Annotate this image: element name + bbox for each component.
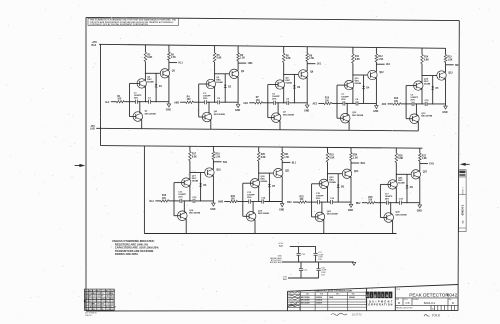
resistor R2 6.8K (144, 45, 146, 52)
svg-text:AL2: AL2 (105, 101, 110, 104)
svg-text:RES: RES (110, 296, 113, 298)
ground (305, 105, 309, 108)
wire base node (145, 72, 160, 74)
svg-text:GND: GND (166, 110, 171, 112)
resistor R18 1.5K (212, 147, 214, 152)
wire output node MF1 (446, 64, 454, 66)
ground (418, 205, 422, 208)
junction dots (258, 173, 259, 174)
svg-text:6042-0-1: 6042-0-1 (460, 204, 464, 215)
diode D5 (432, 76, 434, 104)
proprietary notice box (88, 18, 178, 25)
svg-text:1000: 1000 (97, 296, 101, 298)
svg-text:JE1: JE1 (386, 64, 391, 66)
resistor R4 100 (180, 101, 186, 103)
svg-text:+15V: +15V (92, 42, 98, 44)
ground (212, 203, 216, 206)
svg-text:6.8K: 6.8K (286, 58, 291, 60)
handwritten date (331, 313, 347, 315)
svg-text:PRINTED CIRCUIT REV: PRINTED CIRCUIT REV (396, 308, 413, 310)
fold arrow bottom left (84, 300, 87, 303)
transistor Q5 DEC6534B (206, 79, 215, 88)
svg-text:6534B: 6534B (424, 83, 431, 86)
svg-text:R18: R18 (215, 154, 220, 156)
svg-text:KL1: KL1 (179, 63, 184, 65)
capacitor C17 1000PF (385, 201, 387, 205)
resistor R16 100 (155, 200, 161, 202)
capacitor C4 (217, 100, 219, 104)
resistor R20 6.8K (258, 147, 260, 152)
wire base node (284, 73, 299, 75)
wire +15V top rail (99, 44, 446, 48)
junction dots (214, 73, 215, 74)
svg-text:DEC3009B: DEC3009B (396, 214, 407, 216)
svg-text:DEC3639B: DEC3639B (301, 302, 310, 304)
svg-text:GND: GND (235, 110, 240, 112)
svg-text:1.5K: 1.5K (309, 58, 314, 60)
resistor R27 1.8K (419, 148, 421, 153)
wire output node JK1 (307, 63, 315, 65)
svg-text:6534B: 6534B (216, 81, 223, 84)
transistor Q26 DEC6534B (388, 180, 397, 189)
svg-text:6534B: 6534B (147, 80, 154, 83)
svg-text:NUMBER: NUMBER (413, 299, 419, 301)
svg-text:R27: R27 (422, 155, 427, 157)
svg-text:PF: PF (85, 306, 87, 308)
capacitor C7 1000PF (342, 101, 344, 105)
capacitor C12 (192, 199, 194, 203)
transistor Q27 (411, 170, 420, 179)
wire signal node (263, 102, 274, 104)
fold arrow right (460, 163, 466, 166)
transistor Q2 DEC6534B (137, 79, 146, 88)
svg-text:D664: D664 (329, 296, 333, 299)
svg-text:AD2: AD2 (382, 103, 387, 106)
svg-text:DEC6534B: DEC6534B (301, 299, 310, 302)
svg-text:R20: R20 (261, 154, 266, 156)
resistor R11 6.8K (352, 47, 354, 54)
capacitor C5 1000PF (273, 101, 275, 105)
wire input junction to bases (243, 182, 250, 184)
svg-text:1.5K: 1.5K (240, 58, 245, 60)
svg-text:R15: R15 (448, 57, 453, 59)
wire base node (215, 73, 230, 75)
wire output node BL1 (282, 161, 290, 163)
svg-text:DEC3009B: DEC3009B (421, 116, 432, 118)
svg-text:BJ1: BJ1 (223, 162, 228, 164)
wire base node (259, 172, 274, 174)
transistor Q1 DEC3009B (133, 112, 143, 122)
svg-text:DEC3009B: DEC3009B (145, 113, 156, 115)
svg-text:25%: 25% (203, 98, 207, 100)
capacitor C13 1000PF (248, 199, 250, 203)
wire input junction to bases (130, 82, 137, 84)
svg-text:GND: GND (442, 112, 447, 114)
wire signal node (375, 202, 386, 204)
resistor R15 1.8K (445, 48, 447, 54)
capacitor C18 .01UF (318, 262, 320, 268)
resistor R24 1.5K (350, 148, 352, 153)
svg-text:GND: GND (417, 211, 422, 213)
capacitor C2 (148, 100, 150, 104)
svg-text:6534B: 6534B (398, 181, 405, 184)
resistor R9 1.5K (306, 47, 308, 54)
ground (375, 106, 379, 109)
transistor Q18 (205, 168, 214, 177)
parts list table (84, 289, 114, 310)
svg-text:CORPORATION: CORPORATION (366, 304, 393, 307)
resistor R23 6.8K (327, 147, 329, 152)
svg-text:BA2: BA2 (92, 44, 97, 47)
transistor Q8 DEC6534B (275, 80, 284, 89)
svg-text:34B: 34B (89, 296, 92, 298)
wire signal node (306, 201, 317, 203)
transistor Q6 (229, 69, 238, 78)
junction dots (396, 174, 397, 175)
svg-text:Q21: Q21 (285, 170, 290, 172)
svg-text:R23: R23 (330, 155, 335, 157)
svg-text:6534B: 6534B (329, 181, 336, 184)
svg-text:AM2: AM2 (174, 101, 180, 104)
transistor Q20 DEC6534B (250, 179, 259, 188)
junction dots (145, 73, 146, 74)
wire base node (328, 173, 343, 175)
svg-text:i: i (371, 293, 372, 298)
ground (236, 105, 240, 108)
svg-text:1.5K: 1.5K (378, 59, 383, 61)
wire input junction to bases (312, 183, 319, 185)
transistor Q9 (299, 70, 308, 79)
svg-text:GND: GND (348, 210, 353, 212)
svg-text:6534B: 6534B (261, 180, 268, 183)
svg-text:D664: D664 (97, 301, 101, 303)
svg-text:R24: R24 (353, 154, 358, 157)
resistor R13 100 (388, 103, 394, 105)
margin strip (459, 170, 467, 232)
ground (167, 104, 171, 107)
svg-text:B: B (398, 301, 400, 305)
wire base node (396, 173, 411, 175)
svg-text:DEC3009B: DEC3009B (258, 213, 269, 215)
wire signal node (124, 101, 135, 103)
svg-text:DEC3009B: DEC3009B (214, 114, 225, 116)
transistor Q12 (368, 70, 377, 79)
svg-text:Q18: Q18 (216, 170, 221, 172)
diode D4 (363, 75, 365, 103)
wire ground bus (282, 261, 354, 263)
transistor Q17 DEC6534B (182, 178, 191, 187)
parts list entries (85, 290, 116, 311)
svg-text:25%: 25% (134, 97, 138, 99)
resistor R7 100 (249, 102, 255, 104)
transistor Q13 DEC3009B (410, 114, 420, 124)
svg-text:2N3009: 2N3009 (316, 297, 322, 299)
transistor Q3 (160, 69, 169, 78)
transistor Q23 DEC6534B (319, 179, 328, 188)
resistor R22 100 (293, 201, 299, 203)
capacitor C9 1000PF (411, 102, 413, 106)
svg-text:6.8K: 6.8K (147, 57, 152, 59)
junction dots (283, 74, 284, 75)
svg-text:Q24: Q24 (354, 170, 359, 173)
svg-text:1.8K: 1.8K (448, 59, 453, 61)
svg-text:6534B: 6534B (192, 180, 199, 183)
transistor Q14 DEC6534B (414, 81, 423, 90)
svg-text:R12: R12 (378, 56, 383, 58)
svg-text:PROJ: PROJ (288, 303, 292, 305)
wire -15V decoupling (288, 277, 319, 279)
junction dots (421, 75, 422, 76)
svg-text:25%: 25% (272, 99, 276, 101)
svg-text:R19: R19 (231, 196, 236, 198)
svg-text:R22: R22 (300, 196, 305, 198)
svg-text:LAB: LAB (90, 128, 95, 131)
capacitor C8 (355, 101, 357, 105)
svg-text:34B: 34B (101, 304, 104, 306)
ground (349, 204, 353, 207)
svg-text:DEC3009B: DEC3009B (327, 214, 338, 216)
svg-text:1.8K: 1.8K (422, 158, 427, 160)
wire input junction to bases (199, 83, 206, 85)
number boxes (395, 298, 458, 305)
ground (280, 204, 284, 207)
wire output node KL1 (169, 62, 177, 64)
svg-text:R14: R14 (424, 56, 429, 59)
transistor Q24 (342, 169, 351, 178)
resistor R17 6.8K (189, 146, 191, 151)
svg-text:BK2: BK2 (287, 202, 292, 204)
svg-text:PEAK DETECTOR: PEAK DETECTOR (409, 293, 449, 298)
svg-text:1.5K: 1.5K (284, 157, 289, 159)
transistor Q15 (437, 71, 446, 80)
svg-text:6534B: 6534B (286, 82, 293, 85)
wire input junction to bases (406, 85, 413, 87)
resistor R8 6.8K (283, 46, 285, 53)
svg-text:Q12: Q12 (379, 72, 384, 74)
svg-text:R26: R26 (398, 155, 403, 157)
svg-text:DRN: DRN (288, 292, 291, 294)
svg-text:GND: GND (304, 111, 309, 113)
wire -15V feed to lower bus (143, 146, 145, 234)
svg-text:GND: GND (210, 209, 215, 211)
svg-text:DEC3009B: DEC3009B (352, 115, 363, 117)
resistor R6 1.5K (237, 46, 239, 53)
diode D2 (224, 74, 226, 102)
svg-text:R25: R25 (368, 197, 373, 199)
transistor Q4 DEC3009B (202, 112, 212, 122)
svg-text:l: l (390, 293, 391, 298)
resistor R12 1.5K (375, 48, 377, 54)
capacitor C1 1000PF (135, 100, 137, 104)
wire signal node (193, 101, 204, 103)
svg-text:6042: 6042 (447, 293, 458, 298)
svg-text:DEC3009B: DEC3009B (283, 114, 294, 116)
diode D8 (337, 174, 339, 202)
wire +15V lower rail (101, 146, 423, 149)
signature block (288, 294, 301, 307)
svg-text:25%: 25% (316, 198, 320, 200)
handwritten initials (424, 314, 429, 316)
svg-text:PF: PF (101, 296, 103, 298)
transistor Q10 DEC3009B (340, 113, 350, 123)
ground (444, 106, 448, 109)
diode D1 (155, 73, 157, 101)
svg-text:6.8K: 6.8K (261, 157, 266, 159)
svg-text:10-17-72: 10-17-72 (352, 314, 362, 317)
svg-text:6534B: 6534B (355, 82, 362, 85)
title block frame (288, 285, 459, 292)
wire -15V bus under bottom row (144, 233, 396, 235)
resistor R21 1.5K (281, 147, 283, 152)
wire output node BJ1 (213, 161, 221, 163)
wire input junction to bases (380, 183, 387, 185)
logo digital equipment corporation (366, 292, 393, 299)
svg-text:R11: R11 (355, 56, 360, 58)
svg-text:DEC3009B: DEC3009B (189, 213, 200, 215)
resistor R14 6.8K (421, 48, 423, 54)
svg-text:6.8K: 6.8K (355, 59, 360, 61)
transistor Q16 DEC3009B (178, 211, 188, 221)
svg-text:R10: R10 (325, 98, 330, 100)
resistor R26 6.8K (395, 148, 397, 153)
svg-text:25%: 25% (247, 197, 251, 199)
capacitor C14 (261, 199, 263, 203)
wire signal node (332, 102, 343, 104)
resistor R25 100 (362, 202, 368, 204)
svg-text:UM1: UM1 (248, 63, 254, 65)
svg-text:D664: D664 (110, 309, 114, 311)
wire signal node (401, 103, 412, 105)
capacitor C17 .01UF (315, 247, 317, 253)
svg-text:6.8K: 6.8K (192, 156, 197, 158)
svg-text:TRANSISTOR & DIODE CONVERSION: TRANSISTOR & DIODE CONVERSION CHART (314, 289, 353, 292)
wire output node UM1 (238, 62, 246, 64)
svg-text:R21: R21 (284, 154, 289, 156)
svg-text:BE2: BE2 (356, 203, 361, 205)
diode D6 (200, 173, 202, 201)
wire base node (190, 172, 205, 174)
svg-text:Q15: Q15 (448, 73, 453, 75)
svg-text:6.8K: 6.8K (424, 59, 429, 61)
svg-text:1000: 1000 (110, 304, 114, 306)
transistor Q25 DEC3009B (384, 213, 394, 223)
resistor R10 100 (318, 102, 324, 104)
capacitor C3 1000PF (204, 100, 206, 104)
svg-text:1.5K: 1.5K (171, 57, 176, 59)
diode D7 (268, 173, 270, 201)
svg-text:2N3639: 2N3639 (316, 302, 322, 304)
svg-text:10%: 10% (321, 274, 325, 276)
junction dots (327, 173, 328, 174)
svg-text:JK1: JK1 (317, 64, 322, 66)
wire input junction to bases (268, 84, 275, 86)
svg-text:6.8K: 6.8K (217, 58, 222, 60)
ground (352, 262, 356, 265)
svg-text:CHK: CHK (288, 296, 291, 298)
capacitor C6 (286, 101, 288, 105)
svg-text:25%: 25% (178, 197, 182, 199)
svg-text:AE2: AE2 (313, 103, 318, 106)
svg-text:DL2: DL2 (150, 201, 155, 203)
wire signal node (238, 201, 249, 203)
wire base node (353, 74, 368, 76)
wire output node BH1 (351, 162, 359, 164)
svg-text:R17: R17 (192, 154, 197, 156)
wire input junction to bases (337, 84, 344, 86)
capacitor C15 (300, 262, 302, 268)
svg-text:6.8K: 6.8K (398, 158, 403, 160)
svg-text:DRB 110: DRB 110 (85, 315, 92, 317)
svg-text:EH1: EH1 (429, 164, 434, 166)
junction dots (189, 172, 190, 173)
svg-text:D: D (452, 301, 454, 305)
wire -15V bus under top row (96, 128, 418, 131)
svg-text:COPYRIGHT 1973 BY DIGITAL EQUI: COPYRIGHT 1973 BY DIGITAL EQUIPMENT CORP… (90, 23, 149, 26)
capacitor C11 1000PF (179, 199, 181, 203)
svg-text:1N3606: 1N3606 (349, 297, 355, 299)
svg-text:SHEET 1: SHEET 1 (462, 187, 464, 194)
svg-text:i: i (379, 293, 380, 298)
svg-text:1.5K: 1.5K (353, 158, 358, 160)
resistor R3 1.5K (168, 45, 170, 52)
svg-text:6042-0-1: 6042-0-1 (424, 301, 436, 305)
svg-text:DIODES ARE D664: DIODES ARE D664 (115, 252, 139, 256)
transistor diode conversion chart (300, 292, 367, 310)
svg-text:1.5K: 1.5K (215, 156, 220, 158)
capacitor C18 (399, 201, 401, 205)
wire output node JE1 (376, 63, 384, 65)
svg-text:R13: R13 (394, 98, 399, 100)
svg-text:BL1: BL1 (292, 162, 297, 164)
svg-text:TITLE: TITLE (396, 289, 400, 291)
wire output node EH1 (420, 163, 428, 165)
fold arrow left (79, 164, 85, 167)
svg-text:6.8K: 6.8K (330, 158, 335, 160)
capacitor C16 (298, 247, 300, 253)
svg-text:10: 10 (432, 308, 434, 310)
transistor Q22 DEC3009B (315, 212, 325, 222)
diode D3 (293, 74, 295, 102)
svg-text:DEC3009B: DEC3009B (301, 297, 310, 299)
wire input junction to bases (174, 182, 181, 184)
transistor Q7 DEC3009B (271, 113, 281, 123)
svg-text:1/4W: 1/4W (110, 301, 114, 303)
resistor R5 6.8K (214, 46, 216, 53)
svg-text:2N6534: 2N6534 (316, 299, 322, 302)
svg-text:RES: RES (93, 306, 96, 308)
svg-text:P.A.K: P.A.K (432, 313, 441, 317)
svg-text:25%: 25% (385, 198, 389, 200)
svg-text:BH2,BN1,BM2: BH2,BN1,BM2 (270, 262, 282, 264)
svg-text:GND: GND (279, 209, 284, 211)
capacitor C15 1000PF (317, 200, 319, 204)
resistor R1 100 (111, 101, 117, 103)
wire base node (422, 75, 437, 77)
junction dots (352, 74, 353, 75)
svg-text:R16: R16 (162, 195, 167, 197)
svg-text:Q27: Q27 (423, 172, 428, 174)
wire signal node (169, 200, 180, 202)
svg-text:CS: CS (406, 301, 410, 305)
diode D9 (406, 174, 408, 202)
svg-text:3009B: 3009B (110, 290, 115, 292)
transistor Q21 (274, 168, 283, 177)
transistor Q11 DEC6534B (344, 80, 353, 89)
wire +15V decoupling (290, 246, 316, 248)
svg-text:25%: 25% (341, 99, 345, 101)
transistor Q19 DEC3009B (246, 212, 256, 222)
svg-text:MF1: MF1 (455, 65, 460, 67)
